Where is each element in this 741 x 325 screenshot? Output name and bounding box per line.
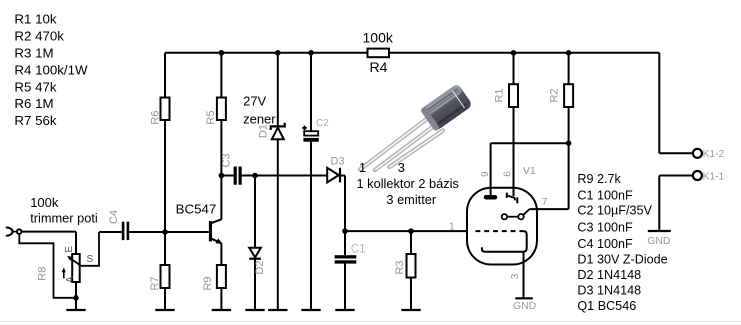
svg-text:R4: R4 (370, 59, 388, 75)
svg-text:R7 56k: R7 56k (14, 113, 56, 128)
svg-text:R5: R5 (205, 111, 217, 125)
svg-text:R2 470k: R2 470k (14, 28, 64, 43)
svg-text:A: A (65, 276, 76, 283)
svg-text:D3 1N4148: D3 1N4148 (577, 284, 641, 298)
svg-text:D3: D3 (331, 156, 345, 168)
svg-text:7: 7 (542, 197, 548, 208)
svg-text:3 emitter: 3 emitter (386, 192, 437, 207)
svg-text:R1: R1 (493, 88, 505, 102)
svg-text:1: 1 (449, 222, 455, 233)
svg-text:R9 2.7k: R9 2.7k (577, 172, 621, 186)
svg-text:C4: C4 (108, 210, 120, 224)
svg-text:zener: zener (243, 111, 276, 126)
svg-text:K1-2: K1-2 (703, 149, 725, 160)
svg-text:R9: R9 (202, 276, 214, 290)
svg-text:R8: R8 (37, 267, 49, 281)
svg-text:V1: V1 (523, 165, 536, 177)
svg-text:C1: C1 (351, 244, 366, 256)
svg-text:D2: D2 (254, 260, 266, 274)
svg-text:R5 47k: R5 47k (14, 79, 56, 94)
svg-text:3: 3 (510, 273, 521, 279)
svg-text:27V: 27V (243, 94, 266, 109)
svg-text:BC547: BC547 (176, 202, 217, 217)
svg-text:C1 100nF: C1 100nF (577, 188, 633, 202)
svg-text:D1 30V Z-Diode: D1 30V Z-Diode (577, 252, 667, 266)
svg-text:GND: GND (513, 301, 536, 312)
svg-text:100k: 100k (30, 195, 59, 210)
svg-text:R3 1M: R3 1M (14, 45, 53, 60)
svg-text:R6: R6 (149, 111, 161, 125)
svg-text:Q1 BC546: Q1 BC546 (577, 299, 636, 313)
svg-text:C3: C3 (220, 153, 232, 167)
svg-text:C3 100nF: C3 100nF (577, 221, 633, 235)
svg-text:C2 10µF/35V: C2 10µF/35V (577, 204, 652, 218)
svg-text:trimmer poti: trimmer poti (30, 211, 98, 226)
svg-text:R1 10k: R1 10k (14, 12, 56, 27)
svg-text:C2: C2 (316, 118, 329, 129)
svg-text:1 kollektor 2 bázis: 1 kollektor 2 bázis (357, 176, 459, 191)
svg-text:100k: 100k (363, 30, 394, 46)
svg-text:3: 3 (398, 160, 405, 175)
svg-text:6: 6 (502, 171, 513, 177)
svg-text:E: E (64, 246, 75, 253)
svg-text:S: S (87, 254, 94, 265)
svg-text:9: 9 (480, 171, 491, 177)
svg-text:1: 1 (359, 160, 366, 175)
svg-text:R4 100k/1W: R4 100k/1W (14, 62, 88, 77)
svg-text:C4 100nF: C4 100nF (577, 237, 633, 251)
svg-text:R2: R2 (548, 88, 560, 102)
svg-text:D2 1N4148: D2 1N4148 (577, 268, 641, 282)
svg-text:K1-1: K1-1 (703, 171, 725, 182)
svg-text:R3: R3 (394, 260, 406, 274)
svg-text:D1: D1 (258, 124, 270, 138)
svg-text:R6 1M: R6 1M (14, 96, 53, 111)
svg-text:R7: R7 (149, 276, 161, 290)
svg-text:GND: GND (647, 236, 670, 247)
